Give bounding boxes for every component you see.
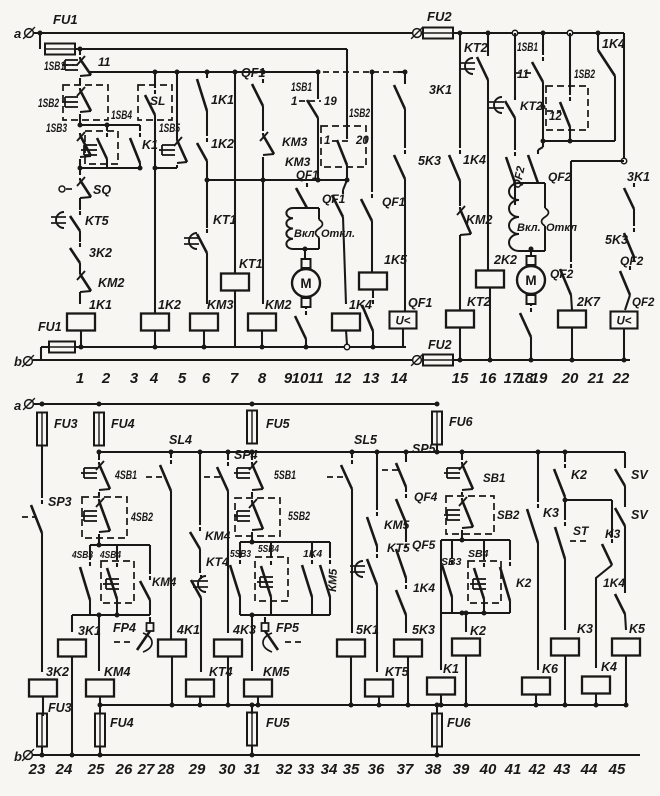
svg-text:34: 34: [321, 761, 338, 778]
svg-text:FU2: FU2: [428, 338, 452, 352]
svg-text:FP5: FP5: [276, 621, 300, 635]
svg-text:14: 14: [391, 370, 408, 387]
svg-text:U<: U<: [395, 316, 410, 328]
svg-text:5SB2: 5SB2: [288, 511, 310, 523]
svg-text:11: 11: [308, 370, 324, 387]
svg-text:30: 30: [219, 761, 236, 778]
svg-text:22: 22: [612, 370, 630, 387]
svg-text:КМ5: КМ5: [327, 568, 340, 592]
svg-text:QF1: QF1: [296, 170, 318, 182]
svg-text:SV: SV: [631, 468, 649, 482]
svg-text:KT2: KT2: [467, 295, 491, 309]
svg-text:K3: K3: [605, 527, 621, 541]
svg-text:43: 43: [553, 761, 571, 778]
svg-text:10: 10: [292, 370, 309, 387]
svg-text:1SB1: 1SB1: [44, 61, 65, 73]
svg-text:FU6: FU6: [449, 415, 474, 429]
svg-text:1: 1: [291, 96, 297, 108]
svg-text:KM3: KM3: [282, 135, 308, 149]
svg-text:23: 23: [28, 761, 46, 778]
svg-text:FP4: FP4: [113, 621, 136, 635]
svg-text:19: 19: [531, 370, 548, 387]
svg-text:1SB4: 1SB4: [111, 110, 132, 122]
svg-text:KM3: KM3: [207, 298, 233, 312]
svg-text:SL5: SL5: [354, 433, 378, 447]
svg-text:5K3: 5K3: [412, 623, 435, 637]
svg-text:6: 6: [202, 370, 211, 387]
svg-text:13: 13: [363, 370, 380, 387]
svg-text:QF2: QF2: [620, 254, 644, 268]
svg-text:11: 11: [517, 69, 529, 81]
svg-text:27: 27: [137, 761, 155, 778]
svg-text:19: 19: [324, 96, 337, 108]
svg-text:Вкл.: Вкл.: [517, 222, 541, 234]
svg-text:QF5: QF5: [412, 538, 436, 552]
svg-text:KT2: KT2: [520, 99, 543, 113]
svg-text:a: a: [14, 26, 21, 41]
svg-text:KT1: KT1: [213, 213, 237, 227]
svg-text:Откл: Откл: [546, 222, 577, 234]
svg-text:36: 36: [368, 761, 385, 778]
svg-text:21: 21: [587, 370, 605, 387]
svg-text:1SB2: 1SB2: [38, 98, 59, 110]
svg-text:FU1: FU1: [38, 320, 62, 334]
svg-text:M: M: [300, 276, 311, 291]
svg-text:3: 3: [130, 370, 139, 387]
svg-text:15: 15: [452, 370, 469, 387]
svg-text:39: 39: [453, 761, 470, 778]
svg-text:QF2: QF2: [548, 170, 572, 184]
svg-text:KT1: KT1: [239, 257, 263, 271]
svg-text:35: 35: [343, 761, 360, 778]
svg-text:16: 16: [480, 370, 497, 387]
svg-text:3K2: 3K2: [46, 665, 69, 679]
svg-text:1SB1: 1SB1: [291, 82, 312, 94]
svg-text:1K2: 1K2: [158, 298, 181, 312]
svg-text:20: 20: [561, 370, 579, 387]
svg-text:SL4: SL4: [169, 433, 192, 447]
svg-text:K2: K2: [470, 624, 486, 638]
svg-text:FU5: FU5: [266, 716, 291, 730]
svg-text:4K1: 4K1: [176, 623, 200, 637]
svg-text:42: 42: [528, 761, 546, 778]
svg-text:3K2: 3K2: [89, 246, 112, 260]
svg-text:SP3: SP3: [48, 495, 72, 509]
svg-text:1K4: 1K4: [349, 298, 372, 312]
svg-text:29: 29: [188, 761, 206, 778]
svg-text:K2: K2: [516, 576, 532, 590]
svg-text:FU2: FU2: [427, 9, 452, 24]
svg-text:U<: U<: [616, 316, 631, 328]
svg-text:QF1: QF1: [382, 195, 406, 209]
svg-text:3K1: 3K1: [627, 170, 650, 184]
svg-text:4SB2: 4SB2: [130, 512, 153, 524]
svg-text:KT4: KT4: [206, 555, 229, 569]
svg-text:K3: K3: [577, 622, 593, 636]
svg-text:K3: K3: [543, 506, 559, 520]
svg-text:Вкл: Вкл: [294, 228, 315, 240]
svg-text:4: 4: [149, 370, 159, 387]
svg-text:FU3: FU3: [54, 417, 78, 431]
svg-text:41: 41: [504, 761, 522, 778]
svg-text:Откл.: Откл.: [321, 228, 355, 240]
svg-text:1K4: 1K4: [413, 581, 435, 595]
svg-text:5K3: 5K3: [418, 154, 441, 168]
svg-text:1K1: 1K1: [89, 298, 112, 312]
svg-text:24: 24: [55, 761, 73, 778]
svg-text:5K1: 5K1: [356, 623, 379, 637]
svg-text:1: 1: [76, 370, 84, 387]
svg-text:SQ: SQ: [93, 183, 111, 197]
svg-text:37: 37: [397, 761, 414, 778]
svg-text:45: 45: [608, 761, 626, 778]
svg-text:32: 32: [276, 761, 293, 778]
svg-text:a: a: [14, 398, 21, 413]
svg-text:3K1: 3K1: [78, 624, 101, 638]
svg-text:12: 12: [335, 370, 352, 387]
svg-text:FU6: FU6: [447, 716, 472, 730]
svg-text:28: 28: [157, 761, 175, 778]
svg-text:QF1: QF1: [241, 66, 265, 80]
svg-text:QF2: QF2: [632, 297, 655, 309]
svg-text:1SB3: 1SB3: [46, 123, 67, 135]
svg-text:1K4: 1K4: [602, 37, 625, 51]
svg-text:26: 26: [115, 761, 133, 778]
svg-text:KT4: KT4: [209, 665, 233, 679]
svg-text:b: b: [14, 354, 22, 369]
svg-text:1: 1: [324, 135, 330, 147]
svg-text:1SB1: 1SB1: [517, 42, 538, 54]
svg-text:M: M: [525, 273, 536, 288]
svg-text:SP4: SP4: [234, 448, 258, 462]
svg-text:11: 11: [98, 55, 111, 69]
svg-text:8: 8: [258, 370, 267, 387]
svg-text:1K2: 1K2: [211, 137, 234, 151]
svg-text:KT2: KT2: [464, 41, 488, 55]
svg-text:1K4: 1K4: [603, 576, 625, 590]
svg-text:25: 25: [87, 761, 105, 778]
svg-text:1K1: 1K1: [211, 93, 234, 107]
svg-text:SP5: SP5: [412, 442, 437, 456]
svg-text:5SB1: 5SB1: [274, 470, 296, 482]
svg-text:12: 12: [549, 111, 562, 123]
svg-text:K2: K2: [571, 468, 587, 482]
svg-text:2K7: 2K7: [576, 295, 601, 309]
svg-text:38: 38: [425, 761, 442, 778]
svg-text:SB4: SB4: [468, 548, 489, 560]
svg-text:2K2: 2K2: [493, 253, 517, 267]
svg-text:KT5: KT5: [385, 665, 410, 679]
svg-text:QF4: QF4: [414, 490, 438, 504]
svg-text:KM2: KM2: [265, 298, 291, 312]
svg-text:SV: SV: [631, 508, 649, 522]
svg-text:b: b: [14, 749, 22, 764]
svg-text:KM3: KM3: [285, 155, 311, 169]
svg-text:QF1: QF1: [408, 296, 432, 310]
svg-text:1SB2: 1SB2: [349, 108, 370, 120]
svg-text:KM4: KM4: [104, 665, 130, 679]
svg-text:FU5: FU5: [266, 417, 291, 431]
svg-text:1SB2: 1SB2: [574, 69, 595, 81]
svg-text:K4: K4: [601, 660, 617, 674]
svg-text:SB2: SB2: [497, 510, 520, 522]
svg-text:FU1: FU1: [53, 12, 78, 27]
svg-text:K6: K6: [542, 662, 559, 676]
svg-text:K1: K1: [443, 662, 459, 676]
svg-text:1K4: 1K4: [463, 153, 486, 167]
svg-text:SL: SL: [150, 94, 165, 108]
svg-text:7: 7: [230, 370, 239, 387]
svg-text:20: 20: [355, 135, 369, 147]
svg-text:FU4: FU4: [111, 417, 135, 431]
svg-text:KM4: KM4: [205, 529, 231, 543]
svg-text:44: 44: [580, 761, 598, 778]
svg-text:3K1: 3K1: [429, 83, 452, 97]
svg-text:KM4: KM4: [152, 577, 177, 589]
svg-text:4SB1: 4SB1: [114, 470, 137, 482]
svg-text:ST: ST: [573, 524, 590, 538]
svg-text:KM2: KM2: [98, 276, 124, 290]
svg-text:40: 40: [479, 761, 497, 778]
svg-text:FU3: FU3: [48, 701, 72, 715]
svg-text:5: 5: [178, 370, 187, 387]
svg-text:33: 33: [298, 761, 315, 778]
svg-text:KM5: KM5: [263, 665, 290, 679]
svg-text:SB1: SB1: [483, 473, 505, 485]
svg-text:FU4: FU4: [110, 716, 134, 730]
svg-text:2: 2: [101, 370, 111, 387]
svg-text:KT5: KT5: [85, 214, 110, 228]
svg-text:5SB4: 5SB4: [258, 543, 279, 555]
svg-text:K5: K5: [629, 622, 646, 636]
svg-text:31: 31: [244, 761, 261, 778]
